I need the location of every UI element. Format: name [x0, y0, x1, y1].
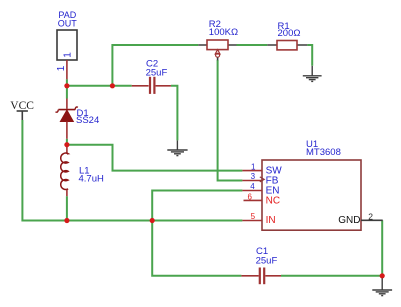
- svg-text:1: 1: [63, 52, 74, 58]
- capacitor C1 25uF: [241, 246, 281, 284]
- pin 5 IN: [242, 220, 262, 222]
- svg-text:1: 1: [56, 65, 67, 71]
- junction node R2 branch: [110, 83, 115, 88]
- power flag VCC: [10, 100, 34, 120]
- wire R1 to ground: [307, 45, 312, 66]
- svg-text:6: 6: [248, 192, 253, 201]
- svg-text:100KΩ: 100KΩ: [209, 27, 238, 38]
- svg-text:NC: NC: [266, 195, 280, 206]
- wire C2 right to ground: [171, 86, 178, 141]
- svg-text:IN: IN: [266, 215, 276, 226]
- pin 3 FB: [242, 180, 262, 182]
- resistor R2 (potentiometer): [198, 19, 238, 60]
- junction node L1/rail: [64, 218, 69, 223]
- wire R2 wiper to FB: [218, 60, 243, 181]
- svg-text:4.7uH: 4.7uH: [79, 174, 104, 185]
- capacitor C2 25uF: [132, 59, 171, 94]
- ground (bottom right): [372, 278, 392, 296]
- wire EN net: [152, 191, 242, 221]
- svg-text:GND: GND: [338, 215, 360, 226]
- wire VCC rail: [22, 120, 242, 221]
- svg-text:4: 4: [250, 182, 255, 191]
- wire L1 bottom: [66, 196, 68, 220]
- ground (under C2): [167, 140, 187, 155]
- diode D1 SS24 (schottky): [56, 99, 100, 139]
- wire D1 anode bottom: [66, 139, 68, 145]
- wire R2-R1: [237, 44, 268, 46]
- wire SW net: [67, 145, 243, 171]
- pin 1 SW: [242, 170, 262, 172]
- wire output rail top: [67, 79, 132, 86]
- junction node GND/C1/ground: [380, 273, 385, 278]
- svg-text:5: 5: [251, 212, 256, 221]
- svg-text:MT3608: MT3608: [306, 147, 341, 158]
- inductor L1 4.7uH: [61, 145, 104, 197]
- wire R2 left branch: [112, 45, 198, 86]
- junction node D1/L1/SW: [64, 142, 69, 147]
- pin 2 GND: [361, 219, 383, 221]
- junction node EN/C1/rail: [150, 218, 155, 223]
- svg-text:2: 2: [368, 211, 373, 221]
- wire D1 cathode top: [66, 86, 68, 99]
- wire C1 left: [152, 221, 241, 276]
- junction node PAD/D1: [64, 83, 69, 88]
- ground (under R1): [303, 66, 322, 82]
- pin 4 EN: [242, 190, 262, 192]
- svg-text:1: 1: [251, 162, 256, 171]
- wire C1 right: [281, 275, 382, 277]
- svg-text:OUT: OUT: [58, 19, 77, 29]
- op-amp U1 MT3608 (IC): [242, 139, 382, 230]
- svg-text:200Ω: 200Ω: [278, 28, 301, 39]
- resistor R1: [267, 21, 307, 50]
- pin 6 NC: [244, 199, 263, 201]
- connector PAD OUT: [56, 10, 77, 79]
- wire GND pin to bottom ground: [381, 220, 383, 278]
- svg-text:25uF: 25uF: [146, 67, 168, 78]
- svg-text:3: 3: [251, 172, 256, 181]
- svg-text:SS24: SS24: [76, 115, 99, 126]
- svg-text:25uF: 25uF: [256, 256, 278, 267]
